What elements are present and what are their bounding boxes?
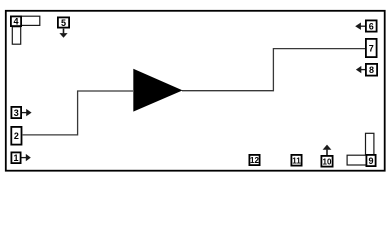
port 4 (11, 16, 21, 26)
port 1 (11, 152, 20, 163)
svg-text:11: 11 (292, 156, 301, 165)
svg-text:10: 10 (323, 157, 332, 166)
svg-text:5: 5 (61, 18, 66, 28)
pad (L-shape) at port 9 (347, 133, 374, 165)
arrow (left) at port 8 (356, 66, 365, 73)
arrow (left) at port 6 (355, 23, 365, 30)
wire from buffer output to port 7 (182, 49, 365, 91)
svg-text:1: 1 (13, 153, 18, 163)
port 11 (291, 155, 301, 166)
svg-text:6: 6 (369, 21, 374, 31)
arrow (down) at port 5 (59, 29, 67, 38)
port 3 (11, 107, 21, 118)
port 7 (366, 39, 377, 57)
port 10 (321, 156, 332, 167)
port 9 (366, 155, 375, 166)
arrow (up) at port 10 (323, 145, 332, 155)
port 5 (58, 17, 69, 28)
wire from port 2 to buffer input (23, 91, 133, 135)
svg-text:8: 8 (369, 65, 374, 75)
svg-text:2: 2 (14, 131, 19, 141)
svg-text:9: 9 (368, 156, 373, 166)
svg-text:7: 7 (369, 43, 374, 53)
port 8 (366, 64, 377, 76)
port 2 (11, 127, 21, 145)
svg-text:3: 3 (14, 108, 19, 118)
svg-text:4: 4 (13, 17, 18, 27)
arrow (right) at port 1 (22, 154, 31, 161)
svg-text:12: 12 (250, 156, 259, 165)
port 12 (249, 155, 259, 165)
buffer U1 (gain triangle) (133, 69, 182, 112)
arrow (right) at port 3 (22, 109, 32, 116)
port 6 (366, 20, 377, 31)
pad (L-shape) at port 4 (12, 16, 40, 44)
